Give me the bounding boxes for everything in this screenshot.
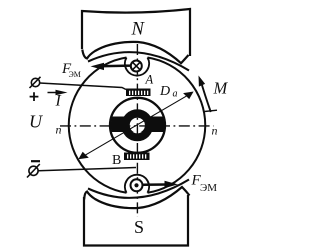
svg-text:n: n xyxy=(212,124,218,138)
svg-text:M: M xyxy=(213,79,229,98)
svg-text:B: B xyxy=(112,153,121,168)
svg-text:ЭМ: ЭМ xyxy=(200,182,217,194)
svg-text:ЭМ: ЭМ xyxy=(69,70,81,79)
svg-text:A: A xyxy=(145,73,154,87)
svg-text:S: S xyxy=(134,217,144,237)
svg-text:n: n xyxy=(56,123,62,137)
svg-text:D: D xyxy=(159,84,170,99)
svg-text:N: N xyxy=(131,20,146,40)
svg-text:a: a xyxy=(173,89,178,100)
svg-text:I: I xyxy=(55,93,62,110)
svg-text:U: U xyxy=(29,112,43,132)
